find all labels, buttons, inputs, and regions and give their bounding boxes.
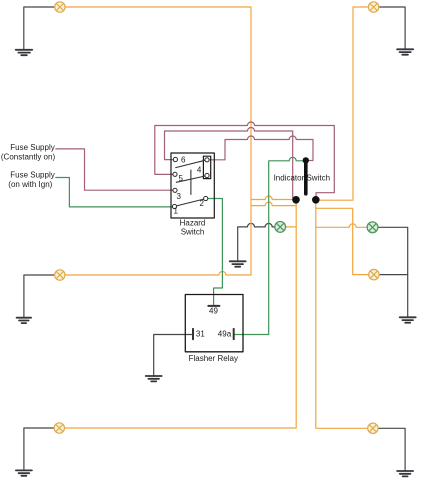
wire: bottom-right lamp to ground (dark) (373, 428, 405, 471)
wire: ignition fuse supply to hazard pin 1 (green) (56, 178, 175, 207)
svg-text:Fuse Supply: Fuse Supply (10, 171, 54, 180)
svg-text:1: 1 (174, 207, 179, 216)
svg-text:(Constantly on): (Constantly on) (1, 152, 56, 161)
ground G4 middle (230, 261, 246, 266)
indicator switch pivot node (303, 157, 309, 163)
hazard switch pin 4 slider rectangle (203, 156, 210, 178)
lamp: mid-left indicator lamp (55, 270, 65, 280)
ground G8 bottom-right (397, 471, 413, 476)
wire: right contact down to bottom-right lamp (orange) (316, 200, 373, 428)
svg-text:Indicator Switch: Indicator Switch (274, 173, 330, 182)
ground G7 bottom-left (16, 470, 32, 475)
svg-text:(on with Ign): (on with Ign) (8, 180, 52, 189)
hazard switch pin 5 (173, 172, 177, 176)
wire: bottom-left lamp to ground (dark) (24, 428, 59, 470)
wire: branch to right green lamp, hops over orange vertical (orange) (316, 224, 373, 227)
svg-text:Flasher Relay: Flasher Relay (189, 354, 238, 363)
wire: hazard pin 2 down to flasher terminal 49 (green) (206, 199, 223, 306)
svg-text:31: 31 (196, 330, 205, 339)
wire: hazard pin 6 loop to left indicator contact, hops over orange (maroon) (165, 128, 297, 198)
wire: flasher 49a up to indicator switch pivot, hops over maroon vertical (green) (234, 157, 306, 334)
wire: hazard pin 5 loop to right indicator contact, hops over orange (maroon) (155, 122, 334, 200)
ground G1 top-left (16, 50, 33, 55)
flasher relay box (185, 295, 243, 352)
wire: left green lamp to ground, hops over orange and green verticals (dark) (238, 223, 281, 261)
wire: left contact down to bottom-left lamp (orange) (59, 200, 296, 429)
hazard switch pin 4 top contact (205, 158, 209, 162)
wire: right orange lamp join (dark) (374, 274, 408, 276)
indicator switch lever (304, 162, 308, 194)
svg-text:4: 4 (197, 166, 202, 175)
wire: top-left lamp to ground (dark) (24, 7, 60, 50)
flasher relay terminal 49a bar (233, 329, 235, 339)
lamp: top-right indicator lamp (368, 2, 378, 12)
svg-text:Hazard: Hazard (180, 219, 206, 228)
svg-text:5: 5 (179, 174, 184, 183)
lamp: bottom-right indicator lamp (368, 423, 378, 433)
svg-text:Fuse Supply: Fuse Supply (10, 143, 54, 152)
hazard switch pin 3 (173, 188, 177, 192)
indicator switch right contact node (312, 196, 320, 204)
lamp: left dash repeater lamp (green) (275, 222, 286, 233)
wire: branch to left indicator contact, hops over green (orange) (251, 196, 296, 199)
wire: right green lamp and right orange lamp to ground (dark) (373, 227, 408, 317)
lamp: right dash repeater lamp (green) (367, 222, 378, 233)
flasher relay terminal 31 bar (192, 329, 194, 339)
svg-text:49: 49 (209, 307, 218, 316)
wire: top-left lamp feed, down left side (orange) (60, 7, 251, 275)
svg-text:3: 3 (177, 192, 182, 201)
svg-text:49a: 49a (218, 330, 232, 339)
ground G6 right (400, 317, 416, 322)
wire: branch to right orange lamp (orange) (316, 208, 374, 274)
hazard switch pin 2 (204, 196, 208, 200)
wire: left green lamp to left node (orange) (280, 226, 296, 228)
hazard switch mechanical link (190, 170, 192, 195)
lamp: bottom-left indicator lamp (54, 423, 64, 433)
hazard switch pin 6 (173, 157, 177, 161)
hazard switch box (171, 153, 214, 218)
ground G5 below flasher relay (146, 376, 162, 381)
svg-text:2: 2 (200, 199, 205, 208)
ground G3 mid-left (17, 318, 32, 323)
hazard switch blade 6-4 (176, 160, 207, 168)
lamp: right orange lamp (369, 269, 379, 279)
hazard switch blade 1-2 (175, 199, 206, 207)
wire: lower branch to left node, hops over green (orange) (251, 202, 296, 205)
wire: hazard pin 4 loop to indicator pivot, hops over orange and maroon (maroon) (209, 136, 313, 161)
wire: top-right lamp to ground (dark) (374, 7, 406, 49)
ground G2 top-right (397, 49, 413, 54)
wire: mid-left lamp to ground (dark) (24, 275, 60, 318)
lamp: top-left indicator lamp (55, 2, 65, 12)
wire: constant fuse supply to hazard pin 3 (maroon) (56, 149, 175, 190)
flasher relay terminal 49 bar (208, 305, 219, 307)
hazard switch pin 1 (172, 204, 176, 208)
wire: flasher relay terminal 31 to ground (dark) (154, 335, 192, 377)
svg-text:6: 6 (181, 156, 186, 165)
hazard switch pin 4 bottom contact (205, 173, 209, 177)
svg-text:Switch: Switch (181, 228, 205, 237)
hazard switch blade 5-4 (176, 176, 207, 183)
wire: branch to mid-left lamp, hops over green (orange) (60, 272, 251, 275)
indicator switch left contact node (292, 196, 300, 204)
wire: right contact to top-right lamp (orange) (316, 7, 374, 200)
